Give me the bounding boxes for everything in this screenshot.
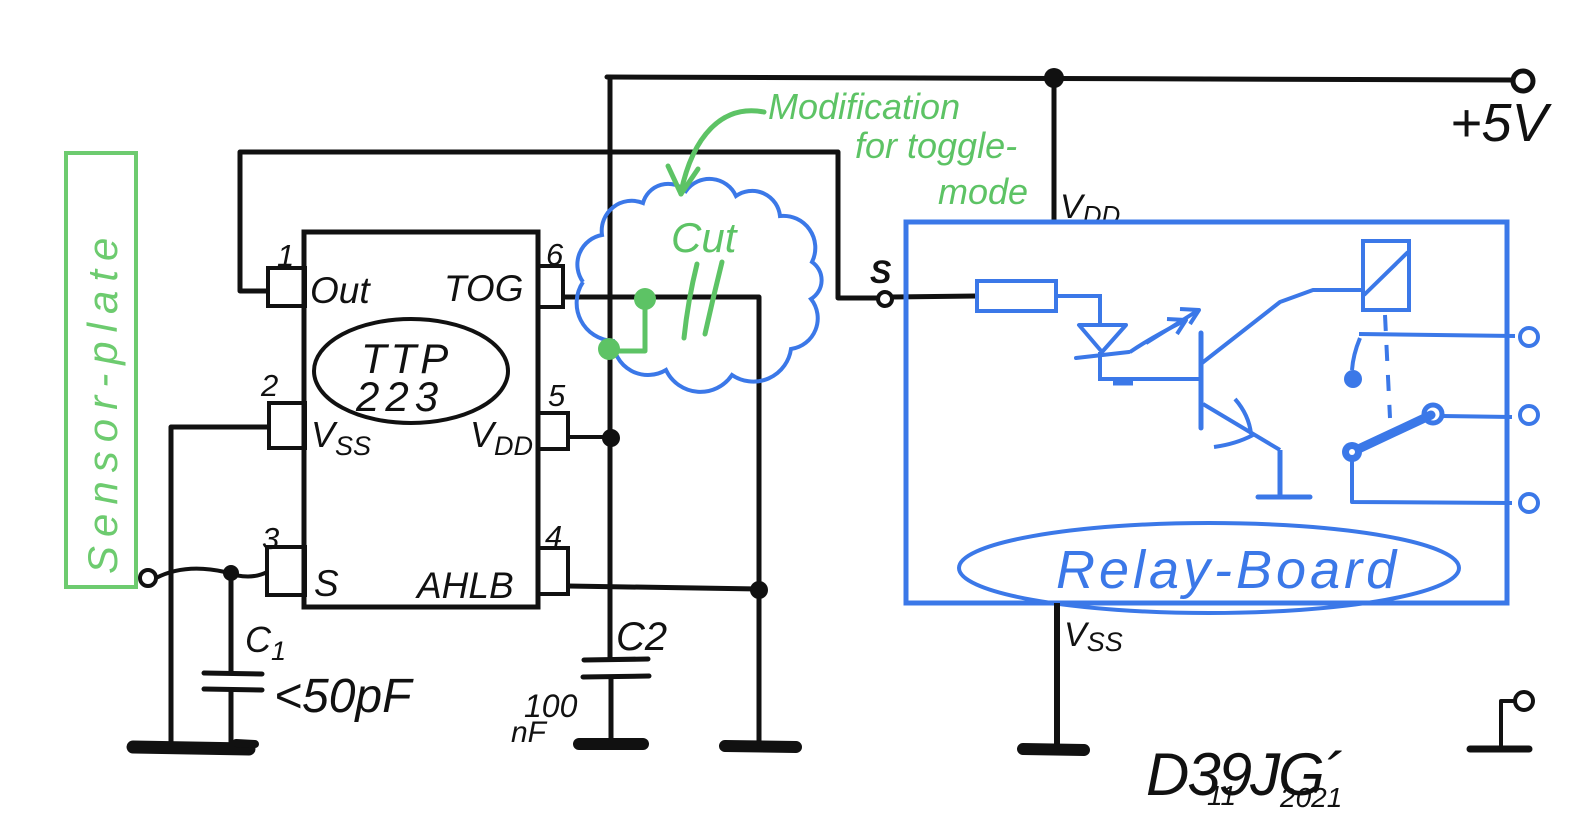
wire: AHLB pin to node: [568, 586, 759, 589]
terminal: relay NC: [1520, 328, 1538, 346]
wire: emitter with arrow: [1203, 404, 1280, 450]
svg-text:for toggle-: for toggle-: [855, 125, 1017, 166]
svg-text:5: 5: [548, 378, 566, 413]
svg-text:Relay-Board: Relay-Board: [1056, 540, 1400, 600]
dashed mechanical link from coil: [1385, 315, 1390, 418]
svg-text:<50pF: <50pF: [274, 670, 414, 723]
relay board outline: [906, 222, 1507, 603]
svg-text:2021: 2021: [1279, 782, 1342, 813]
svg-text:Modification: Modification: [768, 86, 960, 127]
capacitor C1: [204, 673, 262, 674]
wire: Vss to ground: [1054, 603, 1060, 747]
solder blob: jumper at TOG wire: [634, 288, 656, 310]
svg-text:Sensor-plate: Sensor-plate: [79, 229, 126, 574]
junction: VDD tap on +5V rail: [1044, 68, 1064, 88]
wire: collector to relay coil: [1202, 290, 1363, 363]
transistor Q (photo) base bar: [1199, 333, 1204, 428]
wire: +5V top rail: [607, 77, 1514, 80]
svg-text:4: 4: [545, 519, 562, 554]
terminal: +5V open circle: [1513, 71, 1533, 91]
svg-text:mode: mode: [938, 171, 1028, 212]
svg-text:11: 11: [1207, 780, 1236, 811]
terminal: relay COM: [1520, 494, 1538, 512]
svg-text:+5V: +5V: [1450, 93, 1553, 153]
svg-text:AHLB: AHLB: [415, 565, 514, 606]
LED of optocoupler: [1079, 325, 1126, 352]
wire: VDD vertical from rail to relay board: [1052, 78, 1057, 222]
wire: main VDD rail vertical x=611: [608, 77, 613, 660]
ground: relay board internal: [1258, 495, 1310, 500]
pin 4 box: [538, 548, 568, 594]
svg-text:TOG: TOG: [444, 268, 524, 309]
cloud: cut highlight bubble: [577, 179, 822, 392]
ellipse: TTP 223: [314, 319, 508, 423]
solder blob: jumper at VDD rail: [598, 338, 620, 360]
junction: C1 tap: [223, 565, 239, 581]
cut marks //: [684, 264, 697, 338]
terminal: bottom right open circle: [1515, 692, 1533, 710]
ground: under AHLB node: [725, 746, 796, 747]
ellipse: Relay-Board: [959, 523, 1459, 613]
svg-text:223: 223: [355, 373, 444, 420]
svg-text:2: 2: [260, 368, 278, 403]
svg-text:Cut: Cut: [671, 214, 739, 261]
svg-text:S: S: [870, 254, 892, 290]
wire: emitter to internal ground: [1278, 450, 1283, 495]
svg-text:6: 6: [546, 237, 564, 272]
svg-text:nF: nF: [511, 716, 548, 749]
terminal: S open circle: [878, 292, 892, 306]
svg-text:1: 1: [277, 238, 294, 273]
wire: TOG to AHLB (to be cut): [563, 297, 759, 588]
terminal: sensor input open circle: [140, 570, 156, 586]
svg-text:3: 3: [262, 521, 279, 556]
contact: NC throw line: [1359, 334, 1515, 336]
light arrows: [1130, 321, 1184, 352]
wire: C2 to ground: [609, 677, 614, 743]
resistor R (relay board input): [977, 281, 1056, 311]
wire: Out feedback loop to S node: [240, 152, 877, 298]
wire: sensor terminal to pin 3: [156, 569, 267, 578]
ground: sensor/C1 ground: [133, 747, 249, 749]
relay coil K1: [1363, 241, 1409, 310]
pin 3 box: [267, 547, 305, 595]
capacitor C2: [584, 659, 648, 660]
wire: bottom right terminal to ground: [1501, 701, 1515, 748]
svg-text:C2: C2: [616, 615, 667, 659]
wire: S to relay board resistor: [892, 296, 977, 297]
svg-text:Out: Out: [310, 270, 371, 311]
junction: pin5 VDD node: [602, 429, 620, 447]
wire: arm pivot to bottom terminal: [1352, 461, 1512, 503]
wire: AHLB node to ground: [757, 590, 762, 744]
contact: movable arm (thick): [1352, 415, 1431, 452]
wire: junction to C1: [229, 573, 234, 672]
wire: C1 to ground: [229, 690, 234, 748]
terminal: relay NO: [1520, 406, 1538, 424]
pin 1 box: [268, 268, 305, 306]
junction: AHLB node: [750, 581, 768, 599]
ground: under Vss: [1023, 749, 1084, 750]
ground: bottom right: [1470, 746, 1529, 753]
green jumper wire: TOG to VDD rail: [612, 300, 645, 351]
wire: LED cathode down and to transistor base: [1100, 352, 1199, 379]
contact: NC pole stub and dot: [1352, 338, 1360, 370]
IC U1 TTP223 body: [304, 232, 538, 607]
arrow: annotation to cloud: [681, 111, 764, 192]
svg-text:S: S: [314, 563, 339, 604]
ground: under C2: [579, 738, 643, 750]
wire: resistor to LED anode: [1056, 296, 1100, 324]
pin 6 box: [538, 266, 563, 307]
wire: pin5 to VDD rail: [566, 435, 610, 439]
pin 2 box: [269, 403, 305, 448]
wire: arm to middle terminal: [1442, 416, 1512, 417]
pin 5 box: [538, 413, 568, 449]
sensor plate (green box): [66, 153, 136, 587]
wire: pin2 Vss to ground: [171, 427, 269, 744]
